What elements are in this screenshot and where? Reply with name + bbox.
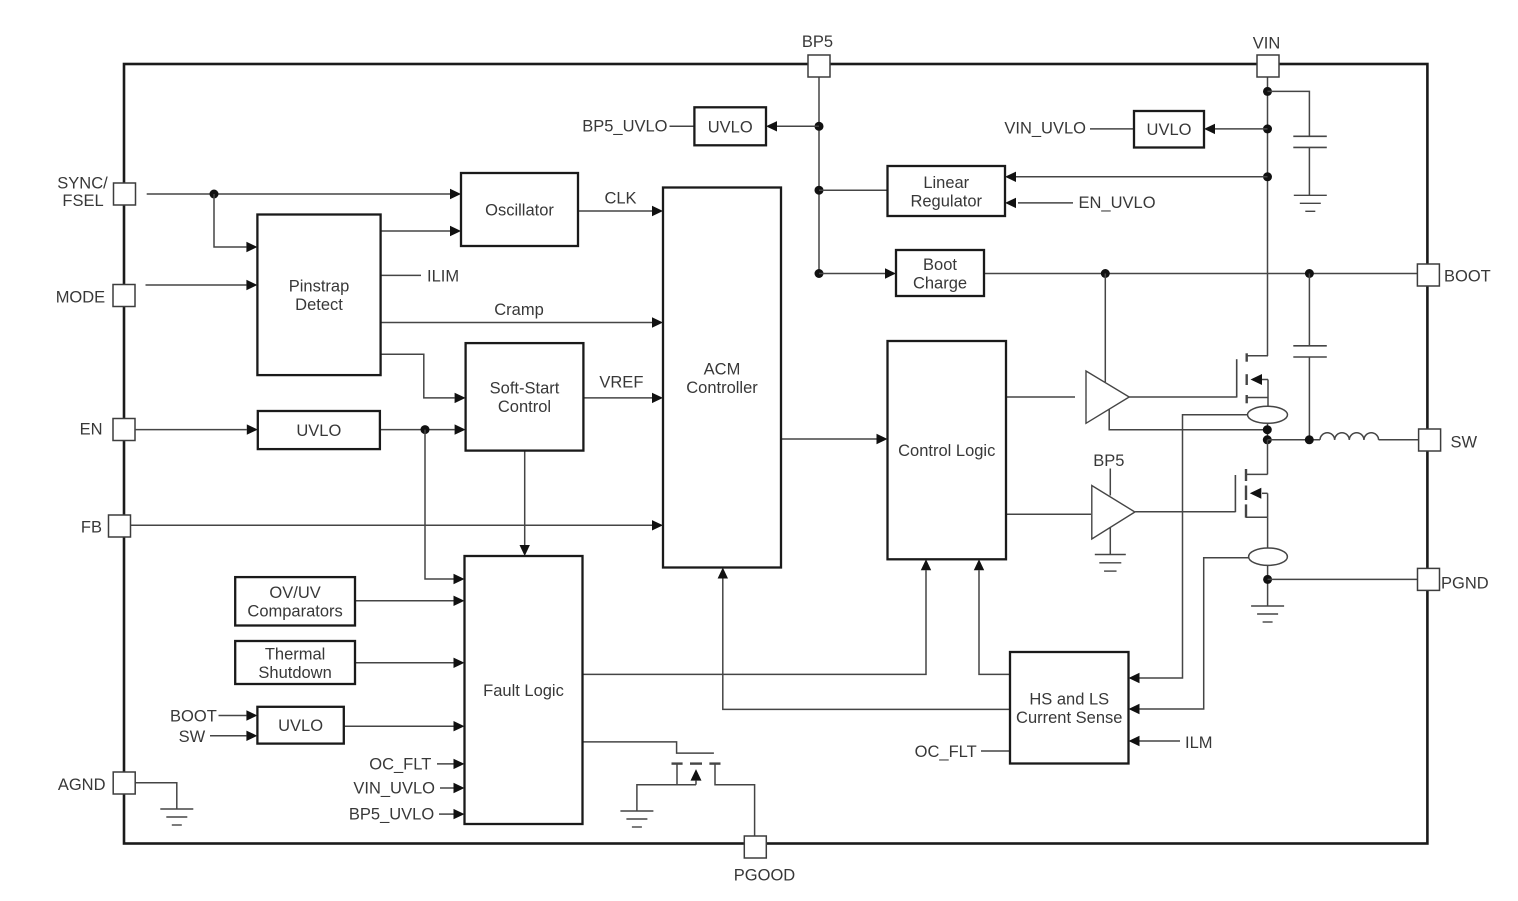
arrow into Fault Logic in3 (454, 658, 465, 668)
wire BP5_UVLO to Fault Logic (439, 813, 454, 815)
arrow into VIN UVLO (1204, 124, 1215, 134)
svg-text:BOOT: BOOT (170, 708, 217, 726)
wire BOOT to boot capacitor (1308, 274, 1310, 346)
transistor LS power NMOS (1235, 469, 1267, 548)
wire Fault Logic to PGOOD gate (583, 742, 714, 753)
wire BP5 to UVLO (777, 125, 819, 127)
arrow BOOT into UVLO (246, 710, 257, 720)
arrow up into ACM bottom (718, 568, 728, 579)
arrow up into Control Logic b1 (921, 559, 931, 570)
wire VIN to UVLO (1215, 128, 1268, 130)
pin label EN (80, 421, 103, 439)
svg-text:CLK: CLK (604, 190, 636, 208)
svg-text:Linear: Linear (923, 174, 969, 192)
arrow into Linear Regulator in1 (1005, 172, 1016, 182)
wire BOOT-SW UVLO to Fault Logic (344, 725, 454, 727)
net stub ILIM (381, 274, 421, 276)
net label OC_FLT at Fault Logic (369, 756, 431, 774)
pin BP5 (808, 55, 830, 77)
wire VIN to bypass capacitor (1268, 91, 1310, 136)
arrow into Soft-Start in2 (455, 424, 466, 434)
block Soft-Start Control (466, 343, 584, 451)
block Linear Regulator (888, 166, 1006, 216)
current sense element HS (1248, 406, 1288, 423)
wire MODE to Pinstrap Detect (146, 284, 247, 286)
junction BP5 at Linear Regulator tap (815, 186, 824, 195)
arrow into Oscillator pin2 (450, 226, 461, 236)
block UVLO (EN) (258, 411, 380, 449)
wire AGND to ground (135, 783, 177, 809)
junction on EN_OK net (421, 425, 430, 434)
arrow into Linear Regulator in2 (1005, 198, 1016, 208)
net label OC_FLT at current sense (915, 743, 977, 761)
net label ILIM (427, 268, 459, 286)
wire EN_OK down to Fault Logic (425, 430, 454, 579)
svg-text:Regulator: Regulator (910, 192, 982, 210)
arrow into Control Logic (877, 434, 888, 444)
arrow into Fault Logic in1 (454, 574, 465, 584)
pin EN (113, 419, 135, 441)
net label BOOT at UVLO (170, 708, 217, 726)
wire SW node to LS drain (1267, 440, 1269, 474)
pin VIN (1257, 55, 1279, 77)
wire HS source to SW node (1267, 423, 1269, 440)
arrow into Pinstrap Detect in1 (246, 242, 257, 252)
wire current sense to ACM bottom (723, 579, 1010, 710)
wire SW label to UVLO (210, 735, 246, 737)
svg-text:Charge: Charge (913, 274, 967, 292)
wire Fault Logic to Control Logic (583, 570, 927, 674)
ground at PGOOD source (620, 811, 653, 827)
net label VIN_UVLO at Fault Logic (353, 780, 435, 798)
driver LS gate buffer (1092, 486, 1135, 540)
wire Soft-Start down to Fault Logic (524, 451, 526, 546)
pin SYNC/FSEL (114, 183, 136, 205)
arrow down into Fault Logic top (520, 545, 530, 556)
pin BOOT (1417, 264, 1439, 286)
svg-text:FSEL: FSEL (62, 192, 103, 210)
net label BP5_UVLO top (582, 118, 667, 136)
wire ACM to Control Logic (781, 438, 877, 440)
wire FB to ACM Controller (131, 524, 652, 526)
net label EN_UVLO (1079, 194, 1156, 212)
net label Cramp (494, 301, 544, 319)
pin label FB (81, 519, 102, 537)
wire CLK Oscillator to ACM (578, 210, 652, 212)
wire Control Logic to HS driver (1006, 396, 1075, 398)
svg-text:VIN: VIN (1253, 35, 1281, 53)
svg-text:OV/UV: OV/UV (269, 584, 320, 602)
svg-text:UVLO: UVLO (278, 717, 323, 735)
block Boot Charge (896, 250, 984, 296)
block ACM Controller (663, 188, 781, 568)
junction VIN at bypass cap (1263, 87, 1272, 96)
block OV/UV Comparators (235, 577, 355, 625)
junction HS driver return at SW (1263, 425, 1272, 434)
junction BP5 at Boot Charge tap (815, 269, 824, 278)
arrow into Fault Logic in7 (454, 809, 465, 819)
arrow into Boot Charge (885, 268, 896, 278)
block HS and LS Current Sense (1010, 652, 1129, 764)
svg-text:Cramp: Cramp (494, 301, 544, 319)
arrow into Pinstrap Detect in2 (246, 280, 257, 290)
ground at LS source (1251, 606, 1284, 622)
arrow into Soft-Start in1 (455, 393, 466, 403)
svg-text:PGND: PGND (1441, 575, 1489, 593)
pin FB (109, 515, 131, 537)
wire LS source to power ground (1267, 565, 1269, 606)
wire SW node to inductor (1268, 439, 1321, 441)
svg-text:UVLO: UVLO (296, 422, 341, 440)
wire LS sense tap (1140, 558, 1249, 709)
svg-text:HS and LS: HS and LS (1029, 691, 1109, 709)
wire Control Logic to LS driver (1006, 513, 1091, 515)
svg-text:UVLO: UVLO (1147, 121, 1192, 139)
svg-text:ILM: ILM (1185, 734, 1213, 752)
net label SW at UVLO (179, 728, 206, 746)
ground at LS driver (1095, 555, 1126, 572)
wire SYNC/FSEL to Oscillator (147, 193, 450, 195)
svg-text:BOOT: BOOT (1444, 268, 1491, 286)
svg-text:Control: Control (498, 398, 551, 416)
pin SW (1419, 429, 1441, 451)
wire EN UVLO to Soft-Start (380, 429, 455, 431)
wire VIN_UVLO to Fault Logic (440, 787, 454, 789)
wire Pinstrap to Soft-Start (381, 354, 455, 398)
junction boot cap at SW (1305, 435, 1314, 444)
svg-text:OC_FLT: OC_FLT (915, 743, 977, 761)
svg-text:VIN_UVLO: VIN_UVLO (1004, 120, 1086, 138)
svg-text:VREF: VREF (599, 373, 643, 391)
arrow into EN UVLO (247, 424, 258, 434)
junction SW node (1263, 435, 1272, 444)
arrow Cramp into ACM (652, 317, 663, 327)
block UVLO (VIN) (1134, 111, 1204, 148)
svg-text:Detect: Detect (295, 296, 343, 314)
pin PGND (1418, 568, 1440, 590)
svg-text:PGOOD: PGOOD (734, 867, 796, 885)
svg-text:Controller: Controller (686, 379, 758, 397)
pin label AGND (58, 776, 106, 794)
wire OV/UV Comparators to Fault Logic (355, 600, 454, 602)
arrow into current sense in2 (1129, 704, 1140, 714)
net label VIN_UVLO top (1004, 120, 1086, 138)
svg-text:BP5_UVLO: BP5_UVLO (349, 806, 434, 824)
pin label VIN (1253, 35, 1281, 53)
net label ILM (1185, 734, 1213, 752)
wire VIN to Linear Regulator (1016, 176, 1268, 178)
wire LS driver ground tick (1109, 527, 1111, 554)
svg-text:Pinstrap: Pinstrap (289, 278, 350, 296)
svg-text:FB: FB (81, 519, 102, 537)
svg-text:EN: EN (80, 421, 103, 439)
pin label MODE (56, 289, 106, 307)
svg-text:SYNC/: SYNC/ (57, 175, 108, 193)
svg-text:Current Sense: Current Sense (1016, 709, 1122, 727)
pin label SW (1451, 434, 1478, 452)
current sense element LS (1249, 548, 1288, 565)
junction BOOT at boot cap (1305, 269, 1314, 278)
svg-text:UVLO: UVLO (708, 118, 753, 136)
arrow FB into ACM (652, 520, 663, 530)
wire SYNC branch to Pinstrap Detect (214, 194, 246, 247)
pin label BP5 (802, 33, 833, 51)
wire Boot Charge to BOOT pin (984, 273, 1418, 275)
pin PGOOD (744, 836, 766, 858)
wire HS driver output to gate (1129, 396, 1237, 398)
svg-text:MODE: MODE (56, 289, 106, 307)
junction PGND node (1263, 575, 1272, 584)
arrow into Oscillator pin1 (450, 189, 461, 199)
wire BP5 tick to LS driver (1109, 469, 1111, 496)
wire PGND node to PGND pin (1268, 578, 1418, 580)
wire BOOT label to UVLO (219, 715, 247, 717)
IC boundary box (124, 64, 1427, 844)
svg-text:Boot: Boot (923, 256, 957, 274)
wire BP5_UVLO label stub (670, 125, 695, 127)
block Oscillator (461, 173, 578, 246)
svg-text:SW: SW (1451, 434, 1478, 452)
arrow VREF into ACM (652, 393, 663, 403)
driver HS gate buffer (1086, 371, 1129, 423)
net label VREF (599, 373, 643, 391)
wire OC_FLT stub to current sense (981, 750, 1010, 752)
arrow into current sense in1 (1129, 673, 1140, 683)
svg-text:Shutdown: Shutdown (258, 664, 331, 682)
arrow SW into UVLO (246, 731, 257, 741)
net label CLK (604, 190, 636, 208)
arrow into Fault Logic in5 (454, 759, 465, 769)
svg-text:Comparators: Comparators (247, 603, 342, 621)
svg-text:VIN_UVLO: VIN_UVLO (353, 780, 435, 798)
svg-text:Oscillator: Oscillator (485, 202, 554, 220)
block Control Logic (888, 341, 1007, 559)
pin label PGOOD (734, 867, 796, 885)
wire BP5 pin down (818, 76, 820, 274)
net label BP5 at LS driver (1093, 452, 1124, 470)
wire EN to UVLO (136, 429, 247, 431)
arrow CLK into ACM (652, 206, 663, 216)
block Fault Logic (465, 556, 583, 824)
pin label PGND (1441, 575, 1489, 593)
wire HS sense tap (1140, 415, 1249, 678)
transistor HS power NMOS (1237, 353, 1268, 406)
wire Pinstrap to Oscillator (381, 230, 450, 232)
arrow into Fault Logic in2 (454, 596, 465, 606)
pin label BOOT (1444, 268, 1491, 286)
arrow into BP5 UVLO (766, 121, 777, 131)
ground at AGND (160, 809, 193, 825)
arrow into current sense in3 (1129, 736, 1140, 746)
block Thermal Shutdown (235, 641, 355, 684)
inductor output (1320, 433, 1379, 440)
pin MODE (113, 285, 135, 307)
svg-text:BP5: BP5 (1093, 452, 1124, 470)
pin label SYNC/FSEL (57, 175, 108, 211)
wire VREF Soft-Start to ACM (583, 397, 652, 399)
svg-text:OC_FLT: OC_FLT (369, 756, 431, 774)
net label BP5_UVLO at Fault Logic (349, 806, 434, 824)
ground at VIN bypass cap (1294, 195, 1327, 211)
wire ILM label stub (1140, 740, 1181, 742)
junction BOOT at HS driver tap (1101, 269, 1110, 278)
capacitor boot (1293, 346, 1327, 440)
block Pinstrap Detect (257, 215, 380, 376)
wire LS driver output to gate (1135, 511, 1235, 513)
arrow into Fault Logic in6 (454, 783, 465, 793)
pin AGND (113, 772, 135, 794)
wire BOOT to HS driver supply (1104, 274, 1106, 383)
svg-text:Thermal: Thermal (265, 645, 326, 663)
arrow into Fault Logic in4 (454, 721, 465, 731)
wire VIN_UVLO label stub (1090, 128, 1134, 130)
svg-text:ACM: ACM (704, 360, 741, 378)
svg-text:SW: SW (179, 728, 206, 746)
junction VIN at UVLO tap (1263, 124, 1272, 133)
wire inductor to SW pin (1379, 439, 1419, 441)
block UVLO (BP5) (694, 107, 766, 145)
wire BP5 to Boot Charge (819, 273, 885, 275)
junction BP5 at UVLO tap (815, 122, 824, 131)
svg-text:BP5_UVLO: BP5_UVLO (582, 118, 667, 136)
svg-text:BP5: BP5 (802, 33, 833, 51)
transistor PGOOD open-drain NMOS (637, 764, 755, 837)
wire VIN pin down to HS drain (1267, 76, 1269, 356)
svg-text:ILIM: ILIM (427, 268, 459, 286)
capacitor VIN bypass (1293, 136, 1327, 195)
wire HS driver return to SW (1109, 410, 1267, 430)
junction on SYNC net (210, 190, 219, 199)
wire Thermal Shutdown to Fault Logic (355, 662, 454, 664)
wire current sense to Control Logic (979, 570, 1010, 674)
arrow up into Control Logic b2 (974, 559, 984, 570)
svg-text:EN_UVLO: EN_UVLO (1079, 194, 1156, 212)
svg-text:Soft-Start: Soft-Start (490, 380, 560, 398)
block UVLO (BOOT-SW) (257, 707, 343, 744)
svg-text:AGND: AGND (58, 776, 106, 794)
junction VIN at Linear Regulator tap (1263, 172, 1272, 181)
wire Cramp to ACM Controller (381, 322, 652, 324)
wire OC_FLT to Fault Logic (437, 763, 454, 765)
svg-text:Control Logic: Control Logic (898, 442, 995, 460)
svg-text:Fault Logic: Fault Logic (483, 682, 564, 700)
wire EN_UVLO label stub (1018, 202, 1073, 204)
wire BP5 to Linear Regulator (819, 189, 888, 191)
